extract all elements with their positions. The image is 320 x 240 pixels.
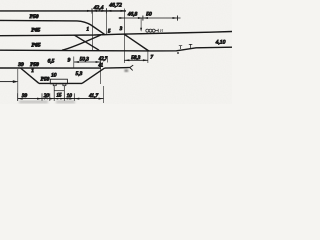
box-feet bracket bar <box>54 90 64 92</box>
small spot below track4 <box>177 52 179 53</box>
dim arrows at tick x=106.4 <box>101 10 111 12</box>
dim 50,3 left tick <box>73 57 75 68</box>
dim 58,3 line <box>124 59 147 61</box>
ladder tick x=17.6 <box>17 93 19 101</box>
trapezoid right slope <box>82 68 105 83</box>
dim arrow at end of track1 <box>121 10 127 12</box>
track 1 (top line) <box>0 10 126 12</box>
dim tick on track1 at x=106.4 <box>105 8 107 13</box>
dead-end fork symbol <box>130 65 133 70</box>
dim 58,3 arrows <box>124 59 147 61</box>
extension vertical x=92.4 <box>91 11 93 51</box>
paper noise overlay <box>0 0 232 104</box>
ghost smudge right <box>56 101 75 104</box>
track 2 R50 <box>0 20 105 34</box>
dim row 2 right tick <box>177 16 179 21</box>
tick x=107.3 <box>106 57 108 63</box>
left direction arrow <box>0 81 16 83</box>
ladder tick x=42 <box>41 93 43 101</box>
box-feet bracket right vertical <box>63 86 65 101</box>
trapezoid bottom <box>39 82 82 84</box>
crossover diagonal A (track4 up to track3) <box>62 35 101 50</box>
dim row 2 line (46,8 / 50) <box>119 17 181 19</box>
track 4 R65 <box>0 47 232 51</box>
trapezoid left slope <box>21 68 40 83</box>
signal symbol ooo-n <box>146 28 164 33</box>
dim 50,3 right tick <box>100 57 102 85</box>
dim 50,3 line <box>74 61 101 63</box>
dim 58,3 right tick <box>147 51 149 63</box>
box foot right <box>63 84 66 86</box>
dim row 2 mid tick <box>142 16 144 21</box>
bottom dim ladder line <box>18 98 104 100</box>
pointer vertical with down arrow to signal <box>140 18 142 30</box>
ladder tick x=49.8 <box>49 93 51 101</box>
small T-mark 1 on rising track4 <box>179 46 182 49</box>
dim arrows at tick x=92 <box>87 10 97 12</box>
weighbridge box <box>50 79 67 84</box>
extension vertical x=103.5 (ladder right) <box>103 86 105 103</box>
dim 50,3 arrows <box>74 61 101 63</box>
dim tick on track1 at x=92 <box>91 8 93 13</box>
small blob below dead-end <box>125 70 128 72</box>
turnout diagonal to lower track (switch 7) <box>124 34 149 51</box>
box foot left <box>53 84 56 86</box>
dim row 2 arrows <box>119 17 177 19</box>
ladder arrows <box>18 98 104 100</box>
ghost smudge left <box>19 101 48 104</box>
track 3 R65 main line <box>0 32 232 36</box>
extension vertical x=124.4 <box>123 9 125 64</box>
track 5 (bottom siding) <box>0 67 101 69</box>
box-feet bracket left vertical <box>53 86 55 101</box>
small T-mark 2 on rising track4 <box>189 44 193 48</box>
crossover diagonal B (track3 down to track4) <box>75 35 100 50</box>
extension vertical x=106.4 <box>105 14 107 35</box>
ladder tick x=74.3 <box>73 93 75 101</box>
track 5 dead-end extension <box>105 67 131 70</box>
extension vertical x=17.8 (left of pit) <box>17 69 19 101</box>
